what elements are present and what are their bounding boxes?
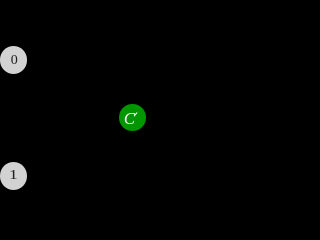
label prime (133, 112, 137, 117)
label 0 (11, 56, 18, 65)
node 0 (0, 46, 27, 74)
label 1 (9, 171, 18, 180)
label C (124, 114, 135, 125)
node C' (119, 104, 146, 131)
node 1 (0, 162, 27, 190)
